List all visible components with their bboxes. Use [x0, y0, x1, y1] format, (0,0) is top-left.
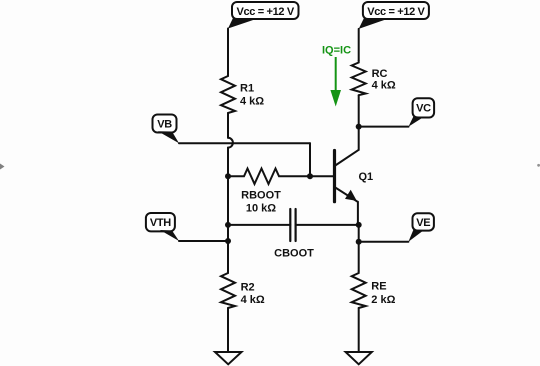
wire: R1 bottom to hop — [227, 113, 229, 138]
svg-text:CBOOT: CBOOT — [274, 248, 314, 260]
svg-text:VB: VB — [157, 118, 172, 130]
node: VE junction — [356, 239, 362, 245]
stray mark at left edge — [0, 164, 5, 170]
svg-text:10 kΩ: 10 kΩ — [246, 203, 276, 215]
node: CBOOT right junction — [356, 222, 362, 228]
callout VC — [409, 98, 435, 126]
svg-text:4 kΩ: 4 kΩ — [241, 294, 265, 306]
callout VTH — [146, 213, 179, 241]
capacitor CBOOT wire right — [296, 224, 359, 226]
wire: R2 to ground — [227, 308, 229, 352]
wire: Vcc1 tail to R1 top — [227, 29, 229, 75]
wire: collector node down to Q1 collector — [358, 127, 360, 150]
svg-text:Q1: Q1 — [359, 171, 374, 183]
ground (left) — [215, 352, 242, 364]
resistor R1 — [221, 74, 235, 113]
capacitor CBOOT wire left — [228, 224, 290, 226]
callout VB — [153, 115, 180, 144]
ground (right) — [346, 352, 372, 364]
resistor R2 — [221, 271, 235, 308]
svg-text:RE: RE — [371, 280, 386, 292]
svg-text:VC: VC — [416, 103, 431, 115]
wire: hop to node VB-junction — [227, 148, 229, 177]
transistor Q1 — [335, 150, 359, 225]
wire: VTH tail to node — [179, 240, 228, 242]
wire: node to CBOOT node to VTH node to R2 — [227, 176, 229, 271]
svg-text:2 kΩ: 2 kΩ — [371, 294, 395, 306]
wire: RE to ground — [358, 308, 360, 352]
resistor RBOOT — [228, 169, 310, 185]
Q1 emitter arrow — [345, 190, 357, 201]
wire: RC bottom to collector node — [358, 95, 360, 126]
svg-text:R2: R2 — [241, 282, 255, 294]
callout Vcc left — [228, 2, 299, 29]
wire hop over VB line — [228, 138, 233, 148]
stray mark at right edge — [537, 164, 540, 167]
node: RBOOT left junction — [225, 173, 231, 179]
wire: Vcc2 tail to RC top — [358, 29, 360, 61]
current arrow IQ — [330, 57, 341, 107]
wire: collector node to VC — [359, 126, 409, 128]
wire: VB tail to hop crossing to corner — [179, 142, 310, 144]
wire: VE node to VE tail — [359, 241, 409, 243]
svg-text:4 kΩ: 4 kΩ — [240, 96, 264, 108]
callout VE — [408, 213, 434, 241]
svg-text:IQ=IC: IQ=IC — [322, 44, 351, 56]
svg-text:VE: VE — [416, 217, 430, 229]
node: collector junction — [356, 124, 362, 130]
resistor RE — [352, 271, 366, 308]
svg-text:RC: RC — [372, 68, 388, 80]
wire: base node to Q1 base — [310, 175, 334, 177]
node: VTH junction — [225, 238, 231, 244]
wire: emitter node down through VE node to RE — [358, 225, 360, 271]
node: base junction — [307, 173, 313, 179]
capacitor CBOOT plates — [290, 209, 295, 241]
wire: VB corner down to base node — [309, 143, 311, 176]
node: CBOOT left junction — [225, 222, 231, 228]
svg-text:RBOOT: RBOOT — [241, 190, 281, 202]
svg-text:VTH: VTH — [150, 217, 171, 229]
svg-text:4 kΩ: 4 kΩ — [372, 80, 396, 92]
svg-text:R1: R1 — [240, 82, 254, 94]
svg-text:Vcc = +12 V: Vcc = +12 V — [237, 6, 295, 18]
callout Vcc right — [359, 2, 429, 29]
svg-text:Vcc = +12 V: Vcc = +12 V — [367, 6, 425, 18]
resistor RC — [352, 61, 366, 96]
